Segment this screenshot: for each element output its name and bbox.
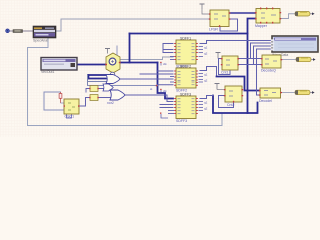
svg-text:q2: q2 <box>204 52 208 56</box>
wire F1 to Y1 row1 <box>238 58 262 60</box>
wire thick mixer output step <box>121 62 158 64</box>
wire scope feed v3 <box>257 49 273 95</box>
wire IC1 out up to scope <box>200 41 272 44</box>
T symbol above D <box>200 4 209 14</box>
wire gate1 out to IC2 <box>120 78 173 80</box>
T symbol above F2 <box>215 84 224 90</box>
svg-text:st: st <box>150 87 153 91</box>
port P1 <box>6 29 10 33</box>
wire K bottom loop <box>67 114 72 118</box>
wire scope feed v2 <box>254 46 273 65</box>
small box B2 <box>89 95 99 101</box>
gate G1 <box>106 75 120 84</box>
wire IC2 out step to right trunk <box>200 67 217 77</box>
gate G3 <box>110 90 125 100</box>
svg-text:q1: q1 <box>204 46 208 50</box>
wire thick IC2-out horizontal to x244 <box>217 77 261 91</box>
svg-text:q1: q1 <box>204 73 208 77</box>
block F2 <box>224 86 243 107</box>
wire B2 to gate3 <box>98 97 111 99</box>
T symbol above mixer <box>105 46 117 56</box>
wire IC2 left feeders <box>158 70 174 72</box>
gate G2 <box>103 84 113 91</box>
svg-text:DecodeI: DecodeI <box>259 99 272 103</box>
svg-text:q2: q2 <box>204 107 208 111</box>
block B2r bottom-right <box>259 88 282 103</box>
wire gates vertical feeder loop <box>87 75 89 86</box>
wire IC1 left pin feeders <box>162 44 164 53</box>
IC2 <box>174 64 198 92</box>
wire block2 to attenuator G3 <box>281 92 296 94</box>
wire thick right trunk x247 <box>248 19 257 114</box>
mixer MX <box>105 53 120 73</box>
source component B <box>13 30 23 33</box>
wire F1 to Y1 row2 <box>238 64 262 66</box>
wire thick gray-block to mixer <box>77 64 106 66</box>
background grid <box>0 0 320 137</box>
wire F2 loop <box>219 96 234 108</box>
wire IC3 out to U <box>200 96 213 99</box>
svg-text:clk: clk <box>163 89 167 93</box>
wire comp B to sink C <box>23 30 33 32</box>
wire port to comp B <box>10 30 13 32</box>
svg-text:SpecAnal: SpecAnal <box>33 39 48 43</box>
node junction on trunk <box>150 85 157 91</box>
block F1 <box>221 56 239 75</box>
IC3 bottom loop marks <box>160 113 168 119</box>
wire thick left trunk T2 <box>129 34 131 63</box>
wire thin mixer upper output to IC1 <box>121 57 174 60</box>
wire thick center trunk T4 <box>158 63 174 99</box>
IC3 right pin stubs <box>199 102 204 111</box>
attenuator G3 <box>295 90 315 95</box>
oscillator block K <box>64 99 80 119</box>
wire B1 to gate2 <box>98 88 103 90</box>
wire E to attenuator G1 <box>280 14 295 19</box>
svg-text:VecOut1: VecOut1 <box>41 70 54 74</box>
svg-text:Mapper: Mapper <box>255 24 268 28</box>
IC2 left pin stubs <box>170 77 174 83</box>
wire thick top trunk T1 <box>130 33 248 35</box>
wire thick bottom U <box>213 96 258 114</box>
block D top-center <box>209 10 231 31</box>
block E top-right <box>255 8 281 29</box>
wire gray top rail from sink C to block D <box>56 19 210 31</box>
svg-text:LFSR: LFSR <box>209 27 218 31</box>
svg-text:xor2: xor2 <box>107 101 114 105</box>
node clk mark under IC1 <box>160 62 167 66</box>
IC3 <box>174 92 198 123</box>
wire IC3 left feeders <box>160 104 173 106</box>
numeric sink block W <box>41 58 77 75</box>
block Y1 <box>261 55 282 73</box>
wire D to E <box>229 12 256 14</box>
small box B1 <box>89 86 99 92</box>
scope S2 <box>271 36 318 57</box>
svg-text:OSC1: OSC1 <box>65 115 75 119</box>
IC1 right pin stubs <box>199 47 204 57</box>
wire block2 feed <box>257 94 261 96</box>
node circle below mixer <box>110 72 115 77</box>
svg-text:DecodeQ: DecodeQ <box>261 69 276 73</box>
sink block C <box>33 26 56 43</box>
wire big left feedback loop <box>28 38 223 126</box>
wire F1 loop <box>219 59 231 75</box>
attenuator G1 <box>295 12 315 17</box>
attenuator G2 <box>296 57 316 62</box>
wire gate3 out to IC3 <box>125 95 173 102</box>
svg-text:Cnt2: Cnt2 <box>227 103 234 107</box>
IC3 left pin stubs <box>168 111 174 114</box>
T symbol above F1 <box>216 53 221 59</box>
svg-text:Cnt1: Cnt1 <box>221 71 228 75</box>
IC1 <box>174 36 198 68</box>
svg-text:q2: q2 <box>204 79 208 83</box>
IC1 lower-left pin stubs <box>170 57 174 60</box>
IC2 right pin stubs <box>199 74 204 83</box>
resistor symbol R above K <box>59 92 64 103</box>
wire scope feed v1 <box>251 43 273 59</box>
wire Y1 to attenuator G2 <box>281 59 296 61</box>
svg-text:clk: clk <box>163 62 167 66</box>
node clk mark under IC2 <box>160 89 167 93</box>
wire D loop <box>220 19 238 31</box>
svg-text:SDFF3: SDFF3 <box>176 119 187 123</box>
wire gate feed thick a <box>88 74 106 76</box>
wire gate feed thick b <box>88 78 106 80</box>
svg-text:q1: q1 <box>204 101 208 105</box>
wire K to B2 <box>79 98 90 107</box>
